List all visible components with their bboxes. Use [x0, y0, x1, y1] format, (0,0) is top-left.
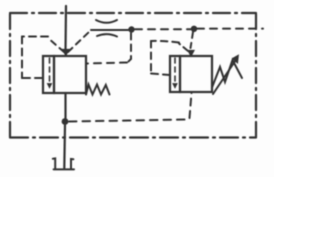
arrowhead at left valve top — [63, 50, 69, 56]
left valve outlet line — [64, 93, 66, 119]
drain line from junction dot to right (dashed) — [69, 120, 188, 122]
pilot line dot1 to dot2 (dashed) — [135, 28, 191, 30]
pilot drop from dot2 (dashed) — [191, 32, 194, 48]
right valve spring (slanted) — [212, 60, 242, 88]
junction dot — [62, 118, 69, 125]
tank line — [63, 124, 66, 168]
right pilot loop bottom to pilot box stub (dashed) — [151, 74, 170, 76]
left valve main square — [54, 56, 86, 93]
enclosure border right (dash-dot) — [255, 14, 257, 138]
right valve internal pilot arrowhead — [173, 84, 177, 89]
left valve internal pilot arrowhead — [47, 84, 51, 89]
left pilot loop top (dashed) — [22, 36, 48, 38]
orifice center line — [91, 29, 129, 31]
left pilot loop left (dashed) — [21, 37, 23, 79]
external pilot line dot2 to right border (dashed) — [197, 28, 263, 30]
left valve spring — [86, 85, 110, 95]
orifice upper arc — [96, 20, 117, 23]
node dot1 — [128, 26, 134, 32]
pilot diagonal to orifice (dashed) — [68, 31, 90, 52]
right valve internal pilot line (dashed) — [174, 58, 176, 82]
right pilot loop top (dashed) — [151, 41, 179, 43]
left pilot loop diagonal (dashed) — [48, 38, 64, 52]
tank symbol — [53, 158, 74, 169]
enclosure border left (dash-dot) — [9, 14, 11, 138]
vent line from dot1 down (dashed) — [128, 33, 131, 62]
orifice lower arc — [97, 34, 117, 36]
right pilot loop diagonal (dashed) — [179, 44, 188, 52]
right pilot loop left (dashed) — [150, 41, 152, 73]
right valve pilot box — [170, 56, 180, 92]
adjustment arrowhead — [232, 55, 238, 63]
enclosure border top (dash-dot) — [10, 12, 256, 14]
node dot2 — [191, 26, 197, 32]
left valve internal pilot line (dashed) — [49, 58, 51, 82]
wire P supply line — [64, 6, 67, 51]
vent line to left valve right side (dashed) — [86, 63, 127, 64]
left pilot loop bottom to pilot box stub (dashed) — [22, 77, 43, 79]
enclosure border bottom (dash-dot) — [10, 136, 256, 138]
drain riser to right valve bottom (dashed) — [190, 93, 192, 118]
adjustment arrow shaft — [213, 59, 237, 94]
arrowhead at right valve top — [188, 51, 194, 57]
left valve pilot box — [43, 56, 54, 93]
right valve main square — [180, 56, 212, 92]
